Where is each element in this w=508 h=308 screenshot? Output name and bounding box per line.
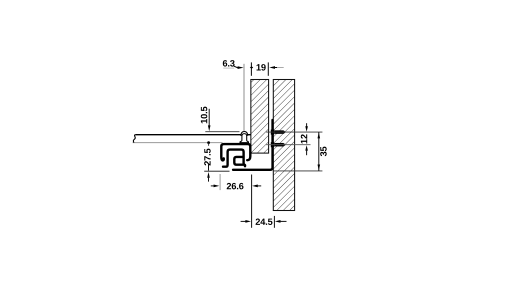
dimension 6.3 leader [223,66,243,69]
label 19 [257,64,266,71]
panel right (wall, hatched) [273,80,294,211]
label 12 [301,134,307,143]
dimension 12 [305,123,308,155]
label 26.6 [227,183,244,190]
dimension 19 extension lines [250,62,284,75]
wire screw axis centerline [243,64,245,132]
shelf (cabinet top panel) [133,135,251,143]
screw 1 [271,130,286,135]
dimension 24.5 [241,216,287,228]
dowel pin on shelf [240,132,249,143]
profile rail: wall plate and bottom [233,120,273,170]
label 35 [320,147,327,157]
dimension 27.5 chain: dot, line, ext, arrow [204,141,229,181]
dimension 10.5 [205,109,239,132]
profile rail: inner hat section [223,150,245,167]
extension line screw2 [266,144,310,146]
extension line profile bottom [274,170,323,172]
label 24.5 [256,218,273,225]
label 6.3 [223,60,235,67]
dimension 35 [318,132,321,171]
extension line screw1 [266,131,322,133]
label 27.5 [204,149,211,166]
label 10.5 [201,107,208,124]
dimension 26.6 [211,174,261,228]
profile rail: outer contour [221,144,250,160]
screw 2 [271,142,286,147]
panel left (19 mm board, hatched) [251,80,269,154]
profile rail: inner chamber [234,157,243,165]
